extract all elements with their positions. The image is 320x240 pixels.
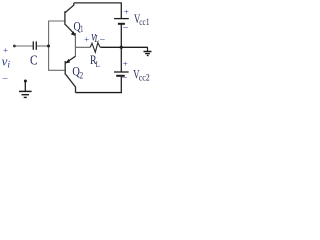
transistor Q1 emitter arrowhead: [71, 31, 76, 36]
svg-text:–: –: [99, 35, 105, 45]
wire Q1 base: [49, 20, 65, 22]
svg-text:1: 1: [80, 25, 83, 35]
svg-text:L: L: [96, 59, 100, 69]
wire bottom rail: [76, 92, 122, 94]
ground (right, output return): [144, 47, 152, 55]
ground (left, input return): [19, 81, 32, 97]
transistor Q2 emitter arrowhead: [65, 59, 70, 64]
wire resistor to right junction and ground: [100, 46, 148, 48]
wire emitter vertical (output node): [74, 33, 76, 57]
svg-text:+: +: [124, 7, 129, 17]
svg-text:vi: vi: [2, 53, 11, 70]
wire capacitor to base node: [37, 45, 49, 47]
node right junction dot: [120, 46, 123, 49]
wire junction to Vcc2: [120, 47, 122, 71]
wire Vcc1 to junction: [120, 25, 122, 48]
wire input terminal to capacitor: [15, 45, 34, 47]
battery Vcc1: [114, 19, 129, 24]
svg-text:+: +: [84, 34, 89, 44]
node base junction dot: [47, 45, 50, 48]
svg-text:L: L: [94, 34, 100, 45]
svg-text:–: –: [121, 73, 127, 83]
node A (input terminal dot): [13, 45, 16, 48]
svg-text:cc2: cc2: [139, 72, 150, 82]
svg-text:2: 2: [79, 72, 83, 82]
wire top rail: [74, 2, 122, 4]
svg-text:cc1: cc1: [139, 17, 149, 27]
battery Vcc2: [114, 72, 129, 76]
capacitor C plates: [33, 41, 36, 49]
wire base vertical bus: [48, 21, 50, 71]
svg-text:C: C: [30, 52, 38, 67]
transistor Q1 (NPN): [65, 3, 76, 35]
wire Vcc1 top stem: [120, 3, 122, 18]
svg-text:–: –: [122, 23, 128, 33]
transistor Q2 (PNP): [65, 56, 75, 92]
svg-text:–: –: [2, 74, 8, 84]
svg-text:+: +: [123, 59, 128, 69]
wire output to resistor: [75, 46, 90, 48]
node left ground dot: [24, 80, 27, 83]
wire Q2 base: [49, 69, 65, 71]
wire Vcc2 bottom stem: [120, 77, 122, 93]
resistor RL zigzag: [90, 43, 100, 53]
